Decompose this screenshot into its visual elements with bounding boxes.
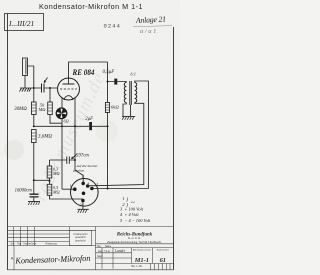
svg-text:RE 084: RE 084 xyxy=(72,68,95,77)
svg-text:6Ω: 6Ω xyxy=(64,118,69,123)
svg-text:Lander: Lander xyxy=(114,249,126,253)
svg-text:Anlage 21: Anlage 21 xyxy=(135,14,167,25)
svg-text:MΩ: MΩ xyxy=(52,171,60,176)
svg-text:30MΩ: 30MΩ xyxy=(14,107,27,112)
svg-text:Abteilungsnummer: Abteilungsnummer xyxy=(133,248,152,251)
svg-text:a / a 1: a / a 1 xyxy=(140,28,156,35)
svg-text:597cm: 597cm xyxy=(76,153,89,158)
svg-text:b: b xyxy=(70,185,72,189)
svg-text:1: 1 xyxy=(122,196,124,201)
svg-text:Ber. z. Abt.: Ber. z. Abt. xyxy=(131,265,142,268)
svg-text:A: A xyxy=(11,256,14,261)
svg-text:Änderung: Änderung xyxy=(45,242,57,246)
svg-text:16000cm: 16000cm xyxy=(15,189,33,194)
svg-text:2: 2 xyxy=(96,183,98,187)
svg-text:Zch: Zch xyxy=(11,242,16,246)
svg-text:Gepr: Gepr xyxy=(31,242,37,246)
svg-text:4 + 4 Volt: 4 + 4 Volt xyxy=(120,212,139,217)
svg-text:Zweigstelle Zentral-Leitung T: Zweigstelle Zentral-Leitung Technik T.Za… xyxy=(107,241,162,244)
svg-text:Gepr: Gepr xyxy=(97,254,103,258)
svg-text:Tag: Tag xyxy=(17,242,22,246)
svg-text:M1-1: M1-1 xyxy=(134,257,149,264)
svg-text:0,5μF: 0,5μF xyxy=(103,70,116,75)
svg-text:3 + 100 Volt: 3 + 100 Volt xyxy=(120,207,144,212)
svg-text:Kondensator-Mikrofon M 1-1: Kondensator-Mikrofon M 1-1 xyxy=(39,2,143,11)
svg-text:6:1: 6:1 xyxy=(131,72,136,77)
svg-text:61: 61 xyxy=(160,257,166,264)
svg-text:2μF: 2μF xyxy=(85,117,93,122)
svg-text:Auf die Stecker: Auf die Stecker xyxy=(76,164,99,168)
svg-text:Name: Name xyxy=(105,246,112,248)
svg-text:7.9.41: 7.9.41 xyxy=(104,250,112,253)
svg-text:a: a xyxy=(88,181,90,185)
svg-text:6kΩ: 6kΩ xyxy=(111,105,119,110)
svg-text:MΩ: MΩ xyxy=(38,107,47,112)
svg-text:5 − 4 − 100 Volt: 5 − 4 − 100 Volt xyxy=(120,218,151,223)
svg-text:Blattnummer: Blattnummer xyxy=(157,248,170,251)
svg-text:3,6MΩ: 3,6MΩ xyxy=(38,134,52,139)
svg-text:geschützt: geschützt xyxy=(75,239,86,242)
svg-text:I...III/21: I...III/21 xyxy=(8,19,34,28)
svg-text:3: 3 xyxy=(80,204,82,208)
svg-text:gesehen: gesehen xyxy=(73,168,85,172)
svg-text:0244: 0244 xyxy=(104,22,121,29)
svg-text:G. m. b. H.: G. m. b. H. xyxy=(128,236,141,240)
svg-text:MΩ: MΩ xyxy=(52,190,60,195)
